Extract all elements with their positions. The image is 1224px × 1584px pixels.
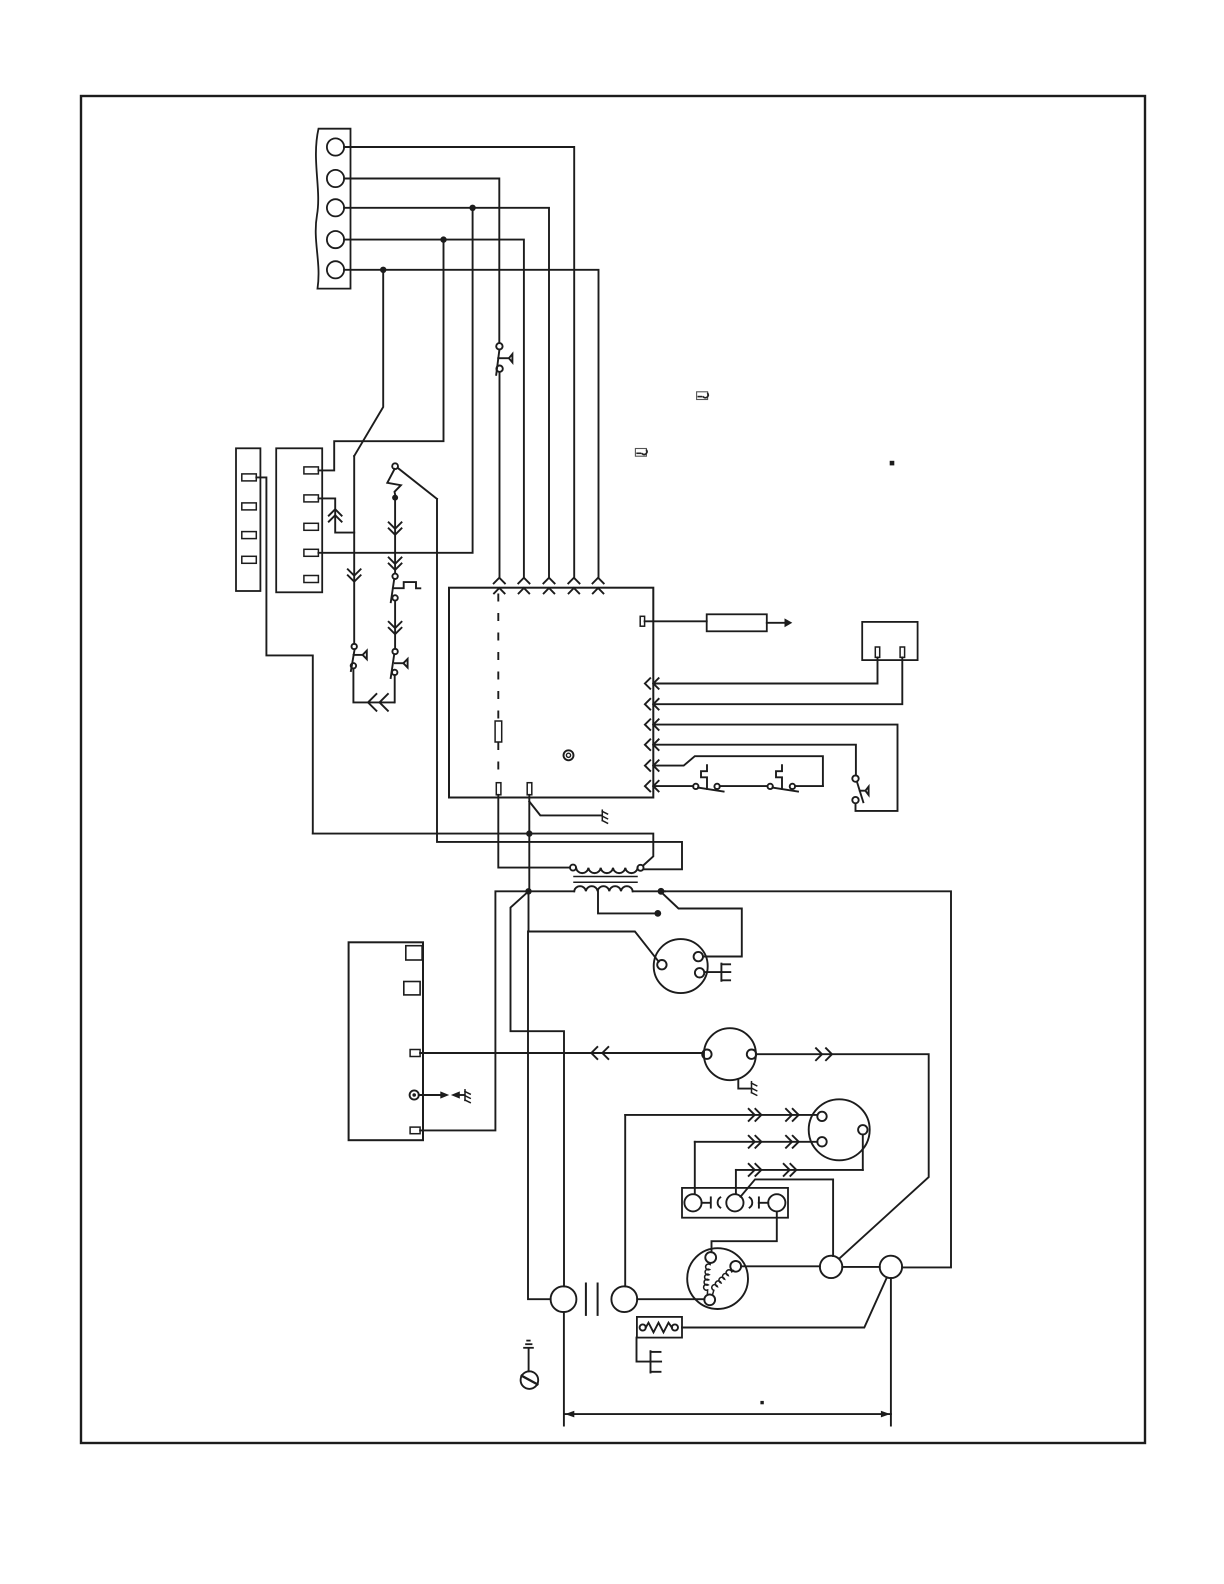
- box right-edge arrow 6 and wire to switch S3: [645, 781, 693, 792]
- connector arrows at top edge of control box: [494, 578, 604, 594]
- row 1 drop to capacitor circle C3R: [624, 1115, 626, 1286]
- box right-edge arrow 5 and wire to bus corner: [645, 756, 823, 786]
- breaker zigzag: [387, 469, 401, 495]
- chain B vertical: [394, 498, 396, 574]
- control box U1: [449, 588, 653, 798]
- branch diagonal to left drop: [511, 891, 565, 1286]
- junction dot secondary right: [658, 888, 665, 895]
- splice pair left: [702, 1202, 710, 1204]
- up chevron pair on B2 pin2 wire: [329, 509, 342, 515]
- junction dot chain B: [392, 495, 398, 501]
- battery charger box B3: [349, 942, 423, 1140]
- right bus from breaker: down and to transformer right: [437, 499, 682, 869]
- tiny dot above dimension line: [760, 1401, 763, 1404]
- row 3 wire with chevrons: [736, 1169, 863, 1171]
- extension line left of dimension: [563, 1312, 565, 1426]
- pump circle C1: [820, 1256, 842, 1278]
- junction dot on line 1: [526, 830, 532, 836]
- row 1 wire to P5 top-left pin with chevrons: [625, 1114, 817, 1116]
- chain A feed: junction J3 down and diagonal: [354, 270, 383, 456]
- pushbutton switch S2: [852, 775, 868, 803]
- chassis ground hatch: [602, 810, 607, 823]
- box right-edge arrow 3 and wire to switch S2 bottom: [645, 719, 898, 811]
- box right-edge arrow 2 and wire to K1 pin2: [645, 657, 902, 709]
- limit switch S4 with step actuator: [768, 765, 823, 791]
- battery output wire to P2 left pin with left chevrons: [420, 1052, 702, 1054]
- capacitor plates: [585, 1284, 587, 1315]
- diagonal from breaker to right bus: [398, 468, 437, 499]
- switch S5 with plunger actuator: [351, 644, 367, 671]
- transformer T1 primary: [570, 865, 644, 874]
- wire from middle circle up over to pump C1: [741, 1179, 834, 1256]
- heater resistor R2 box: [637, 1317, 682, 1338]
- artifact glyph 2: [635, 449, 647, 457]
- down chevron pair on chain A: [348, 569, 361, 575]
- box bottom pin P-A: [496, 783, 501, 795]
- down chevron pair mid: [389, 622, 402, 628]
- wire C1 to C2: [842, 1266, 879, 1268]
- P2 right pin wire with right chevrons down to pump C1: [756, 1054, 929, 1258]
- branch to connector P3 right-top pin: [662, 893, 742, 957]
- secondary right run to pump circle C2: [661, 891, 951, 1267]
- box pin A wire down to primary left terminal: [498, 795, 570, 868]
- motor P6 (3-pin round with windings): [687, 1248, 748, 1309]
- wire B2 pin2 down to chain A with up chevrons: [318, 498, 354, 532]
- wire C3R to motor bottom pin: [637, 1298, 704, 1300]
- round connector P5 (3-pin): [809, 1099, 870, 1160]
- transformer primary feed line 1: [313, 834, 654, 866]
- battery terminal circle with arrows and hatch: [410, 1090, 419, 1099]
- capacitor circle C3L: [551, 1286, 577, 1312]
- chain B vertical between switches: [394, 601, 396, 649]
- round connector P2 (2-pin): [702, 1028, 757, 1095]
- wire CN1 pin4 to box arrow B: [344, 240, 524, 578]
- wire S1 to box arrow A: [499, 372, 501, 578]
- connector CN1 (5-pin, top left): [316, 129, 351, 289]
- capacitor circle C3R: [611, 1286, 637, 1312]
- ground wire from R2 to earth E: [637, 1338, 662, 1362]
- terminal box B4: [682, 1188, 788, 1218]
- junction dot J3 on pin5 wire: [380, 267, 386, 273]
- box bottom pin P-B: [527, 783, 532, 795]
- limit switch S3 with step actuator: [693, 765, 767, 791]
- down chevron pair lower: [389, 558, 402, 564]
- chain A bottom link to chain B with left chevrons: [353, 669, 394, 703]
- box right pin: [640, 616, 644, 626]
- relay box K1: [862, 622, 917, 660]
- round connector P3 (3-pin): [654, 939, 708, 993]
- wire from right circle to motor top pin: [712, 1211, 777, 1252]
- wire B2 pin4 right and up to junction J1: [318, 208, 472, 553]
- wire CN1 pin5 to box arrow E: [344, 270, 598, 578]
- secondary right lead: [633, 890, 665, 892]
- box pin B wire down with chassis ground branch: [528, 795, 530, 892]
- junction dot J1 on pin3 wire: [469, 205, 475, 211]
- artifact dot 3: [890, 461, 895, 466]
- C2 bottom extension to dimension line: [890, 1278, 892, 1426]
- component rect on dashed line: [495, 721, 502, 742]
- chain A vertical: [353, 456, 355, 644]
- wire CN1 pin2 to switch S1: [344, 179, 499, 343]
- pump circle C2: [880, 1256, 902, 1278]
- dashed internal line: [497, 595, 499, 722]
- branch from dot down to P3 left pin and capacitor line: [529, 891, 659, 961]
- wire B1 pin1 down-around to transformer line: [256, 477, 313, 833]
- connector block B2 (5-pin): [276, 448, 322, 592]
- down chevron pair upper: [389, 522, 402, 528]
- row 3 drop to terminal box middle circle: [735, 1170, 737, 1194]
- wire motor right pin to pump C1: [741, 1265, 820, 1267]
- transformer core lines: [574, 876, 637, 878]
- switch S7 with plunger actuator: [391, 649, 408, 678]
- switch S6 with step actuator: [391, 574, 421, 603]
- pushbutton switch S1: [496, 343, 512, 375]
- box right-edge arrow 4 and wire to switch S2 top: [645, 739, 856, 775]
- page border frame: [81, 96, 1145, 1443]
- artifact glyph 1: [697, 392, 709, 400]
- wire CN1 pin1 to box arrow D: [344, 147, 574, 578]
- secondary center tap: [598, 891, 655, 913]
- double circle inside box: [564, 750, 574, 760]
- splice pair right: [750, 1197, 753, 1207]
- wire CN1 pin3 to box arrow C: [344, 208, 549, 578]
- chain B bottom stem: [394, 675, 396, 702]
- secondary left run to battery bottom pin: [420, 891, 574, 1130]
- P5 right pin stem to row 3: [862, 1135, 864, 1170]
- earth symbol E at R2: [651, 1351, 661, 1372]
- row 2 wire to P5 bottom-left pin with chevrons: [695, 1141, 818, 1143]
- C2 diagonal to heater resistor line: [682, 1277, 887, 1327]
- connector block B1 (left, 4-pin): [236, 448, 260, 591]
- junction dot J2 on pin4 wire: [440, 236, 446, 242]
- left chevron pair on bottom link: [368, 694, 376, 711]
- row 2 drop to terminal box: [694, 1142, 696, 1194]
- center tap dot: [654, 910, 661, 917]
- box right-edge arrow 1 and wire to K1 pin1: [645, 657, 878, 688]
- earth symbol E at P3: [704, 964, 730, 981]
- grounding screw symbol: [521, 1341, 539, 1389]
- chain B: breaker circle top: [392, 463, 398, 469]
- transformer T1 secondary: [574, 886, 633, 891]
- junction dot secondary left: [525, 888, 531, 894]
- wire B2 pin1 up to junction J2 line: [318, 240, 443, 471]
- resistor R1 with output arrow: [645, 620, 707, 622]
- dimension line with outward arrows: [564, 1413, 891, 1415]
